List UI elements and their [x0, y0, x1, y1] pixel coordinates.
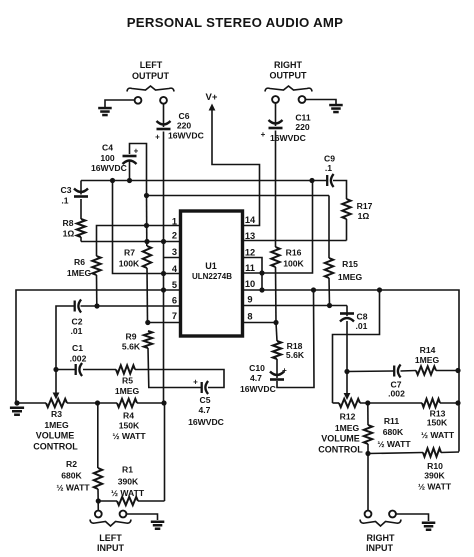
label C10	[240, 363, 276, 394]
svg-text:C6: C6	[179, 111, 190, 121]
junction dots pin 10 rail	[259, 287, 382, 292]
pin numbers 1-7	[172, 217, 178, 322]
junction dot R12-R11	[365, 400, 370, 405]
wire pin 6	[81, 305, 181, 307]
svg-text:12: 12	[245, 248, 255, 258]
right input jack sleeve terminal	[389, 511, 396, 518]
svg-text:+: +	[282, 366, 287, 375]
wire rail two	[147, 195, 330, 197]
svg-text:½ WATT: ½ WATT	[112, 431, 146, 441]
wire C2 left to C1	[56, 306, 74, 370]
svg-text:R11: R11	[384, 416, 400, 426]
junction dot rail two	[144, 193, 149, 198]
label C7	[388, 380, 405, 399]
svg-text:VOLUME: VOLUME	[36, 431, 75, 441]
label RIGHT INPUT	[366, 533, 395, 553]
svg-text:VOLUME: VOLUME	[321, 434, 360, 444]
wire R11 to jack	[367, 444, 369, 511]
svg-text:1MEG: 1MEG	[67, 268, 92, 278]
svg-text:.002: .002	[388, 389, 405, 399]
svg-text:R14: R14	[420, 345, 436, 355]
svg-text:10: 10	[245, 279, 255, 289]
svg-text:R17: R17	[357, 201, 373, 211]
label R18	[286, 341, 305, 360]
label R5	[115, 376, 140, 397]
svg-text:680K: 680K	[61, 471, 82, 481]
label R3	[33, 409, 78, 452]
svg-text:16WVDC: 16WVDC	[91, 163, 127, 173]
svg-text:V+: V+	[206, 92, 218, 103]
svg-text:CONTROL: CONTROL	[33, 442, 78, 452]
wire pin 1 to R6	[97, 226, 181, 257]
svg-text:+: +	[193, 378, 198, 387]
label R12	[318, 412, 363, 455]
svg-text:C11: C11	[295, 113, 311, 123]
resistor R1	[117, 497, 138, 505]
svg-text:.01: .01	[71, 326, 83, 336]
svg-text:R1: R1	[122, 465, 133, 475]
label C3	[61, 185, 72, 206]
svg-text:9: 9	[247, 295, 252, 305]
wire rail top (C3/C4 to C9)	[81, 180, 327, 182]
wire R12 left to pin 10 link	[333, 290, 380, 403]
svg-text:5.6K: 5.6K	[122, 342, 141, 352]
op-amp U1 ULN2274B package	[181, 211, 243, 336]
label R1	[111, 465, 145, 499]
svg-text:3: 3	[172, 247, 177, 257]
svg-text:½ WATT: ½ WATT	[418, 482, 452, 492]
label R14	[415, 345, 440, 365]
wire R12 to R13	[360, 402, 422, 404]
wire C6 column	[163, 104, 165, 127]
ground right input	[422, 522, 436, 525]
svg-text:+: +	[261, 130, 266, 139]
svg-text:R12: R12	[340, 412, 356, 422]
svg-text:LEFT: LEFT	[140, 60, 163, 70]
svg-text:C4: C4	[102, 143, 113, 153]
svg-text:100: 100	[100, 153, 115, 163]
wire pin 10 rail	[243, 290, 460, 452]
resistor R3	[46, 399, 67, 407]
wire R7 to pin 7	[146, 268, 149, 323]
svg-text:R3: R3	[51, 409, 62, 419]
svg-text:4.7: 4.7	[250, 373, 262, 383]
svg-text:.1: .1	[61, 196, 68, 206]
svg-text:CONTROL: CONTROL	[318, 445, 363, 455]
svg-text:LEFT: LEFT	[99, 533, 122, 543]
resistor R16	[271, 247, 279, 267]
junction dot pin 11	[259, 270, 264, 275]
wire C9 to R17	[333, 181, 347, 200]
wire pin 4	[113, 181, 181, 274]
wire pin 9 corner down	[346, 306, 348, 317]
wire C7 row	[347, 370, 394, 373]
wire C10 to pin 10 rail	[277, 290, 314, 388]
svg-text:R5: R5	[122, 376, 133, 386]
wire pin 2	[81, 241, 181, 243]
wire pin 13	[243, 240, 347, 242]
label C6	[168, 111, 204, 141]
svg-text:PERSONAL STEREO AUDIO AMP: PERSONAL STEREO AUDIO AMP	[127, 15, 344, 30]
svg-text:C1: C1	[72, 343, 83, 353]
wire right input sleeve to ground	[396, 514, 429, 521]
right input cable bracket	[360, 520, 401, 527]
right output jack tip terminal	[272, 96, 279, 103]
label C5	[188, 395, 224, 427]
svg-text:4.7: 4.7	[199, 405, 211, 415]
svg-text:16WVDC: 16WVDC	[240, 384, 276, 394]
svg-text:R9: R9	[126, 332, 137, 342]
junction dots rail top	[110, 178, 315, 183]
svg-text:C8: C8	[357, 312, 368, 322]
label C9	[324, 154, 335, 174]
resistor R13	[422, 399, 440, 407]
label LEFT OUTPUT	[132, 60, 170, 81]
wire R9 to C5	[148, 348, 150, 388]
junction dot pin 6	[94, 303, 99, 308]
label C1	[70, 343, 87, 364]
svg-text:16WVDC: 16WVDC	[188, 417, 224, 427]
capacitor C2	[74, 301, 76, 312]
capacitor C10	[270, 372, 284, 376]
left output cable bracket	[127, 86, 174, 92]
V+ arrow	[209, 104, 216, 111]
wire R4 row	[98, 402, 118, 404]
svg-text:1MEG: 1MEG	[338, 272, 363, 282]
pin numbers 8-14	[245, 215, 256, 322]
resistor R11	[364, 425, 372, 444]
svg-text:.1: .1	[325, 163, 332, 173]
wire rail two to R15	[328, 196, 330, 259]
svg-text:C5: C5	[200, 395, 211, 405]
right output jack sleeve terminal	[299, 96, 306, 103]
svg-text:6: 6	[172, 296, 177, 306]
arrow R12 wiper	[344, 393, 351, 400]
wire C1 node to R3 wiper	[55, 370, 57, 394]
svg-text:½ WATT: ½ WATT	[111, 488, 145, 498]
junction dot C1 node	[53, 367, 58, 372]
wire R18 to C10	[276, 359, 278, 378]
wire left input sleeve to ground	[126, 514, 157, 520]
resistor R10	[423, 448, 441, 456]
svg-text:2: 2	[172, 231, 177, 241]
label LEFT INPUT	[97, 533, 125, 553]
wire V+ to pin 14	[212, 109, 260, 226]
svg-text:RIGHT: RIGHT	[274, 60, 303, 70]
junction dot R1 left	[96, 498, 101, 503]
resistor R15	[325, 258, 333, 278]
left input jack sleeve terminal	[120, 511, 127, 518]
svg-text:OUTPUT: OUTPUT	[132, 71, 170, 81]
svg-text:5: 5	[172, 280, 177, 290]
svg-text:150K: 150K	[427, 418, 448, 428]
junction dot pin 8	[273, 320, 278, 325]
resistor R12	[339, 399, 360, 407]
wire pin 12	[243, 258, 263, 291]
junction dot pin 4	[161, 271, 166, 276]
label U1	[192, 261, 232, 281]
svg-text:390K: 390K	[424, 471, 445, 481]
svg-text:R16: R16	[286, 248, 302, 258]
svg-text:R8: R8	[63, 218, 74, 228]
svg-text:C10: C10	[249, 363, 265, 373]
wire pin 5 rail	[16, 290, 181, 403]
label C8	[356, 312, 368, 332]
label R7	[119, 248, 140, 269]
wire R8 to pin 2	[80, 237, 82, 242]
wire R11 top	[367, 403, 369, 425]
svg-text:16WVDC: 16WVDC	[168, 131, 204, 141]
svg-text:.002: .002	[70, 354, 87, 364]
svg-text:390K: 390K	[118, 477, 139, 487]
wire R16 to pin 8	[275, 267, 278, 323]
ground left output	[98, 107, 112, 110]
resistor R7	[143, 246, 151, 268]
label C11	[270, 113, 311, 144]
resistor R5	[116, 365, 135, 373]
wire R18 top	[276, 323, 277, 342]
svg-text:1MEG: 1MEG	[415, 355, 440, 365]
svg-text:C3: C3	[61, 185, 72, 195]
wire R14 right	[436, 370, 458, 372]
resistor R9	[144, 331, 152, 348]
svg-text:680K: 680K	[383, 427, 404, 437]
left input jack tip terminal	[95, 511, 102, 518]
svg-text:4: 4	[172, 264, 178, 274]
wire R13 right	[440, 402, 458, 404]
label R4	[112, 411, 146, 442]
wire R1 row	[98, 500, 117, 502]
resistor R8	[77, 219, 85, 237]
ground R3	[10, 407, 24, 410]
ground left input	[151, 521, 165, 524]
junction dot R3-R4	[95, 400, 100, 405]
wire C1 left lead	[56, 369, 75, 371]
svg-text:ULN2274B: ULN2274B	[192, 272, 232, 281]
svg-text:OUTPUT: OUTPUT	[270, 71, 308, 81]
wire right output to ground	[305, 100, 336, 105]
wire C4 bottom	[129, 160, 131, 181]
capacitor C9	[326, 175, 328, 186]
wire C3 top	[80, 181, 82, 195]
junction dot pin 9	[327, 303, 332, 308]
left output jack tip terminal	[135, 97, 142, 104]
wire pin 7	[148, 322, 181, 324]
resistor R14	[416, 366, 436, 374]
label C2	[71, 317, 83, 337]
svg-text:U1: U1	[205, 261, 217, 271]
wire R5 to C5 loop	[135, 370, 224, 388]
wire C5 left	[150, 387, 202, 389]
capacitor C4	[123, 155, 137, 158]
svg-text:C9: C9	[324, 154, 335, 164]
label R8	[63, 218, 75, 239]
wire pin 8	[243, 322, 277, 324]
svg-text:R15: R15	[342, 259, 358, 269]
wire R3 row	[16, 402, 46, 404]
label RIGHT OUTPUT	[270, 60, 308, 81]
svg-text:1Ω: 1Ω	[358, 211, 370, 221]
svg-text:R10: R10	[427, 461, 443, 471]
capacitor C5	[201, 382, 203, 393]
capacitor C11	[269, 120, 283, 124]
svg-text:13: 13	[245, 231, 255, 241]
label R9	[122, 332, 141, 352]
svg-text:220: 220	[177, 121, 192, 131]
label R17	[357, 201, 373, 221]
label R16	[283, 248, 304, 269]
svg-text:1MEG: 1MEG	[335, 423, 360, 433]
label R6	[67, 257, 92, 278]
junction dot pin 5	[161, 287, 166, 292]
label R11	[377, 416, 411, 449]
svg-text:R7: R7	[124, 248, 135, 258]
label R2	[56, 459, 90, 493]
svg-text:100K: 100K	[119, 259, 140, 269]
svg-text:½ WATT: ½ WATT	[421, 430, 455, 440]
wire R17 to pin 13	[346, 219, 348, 241]
svg-text:1Ω: 1Ω	[63, 229, 75, 239]
resistor R2	[94, 468, 102, 489]
svg-text:100K: 100K	[283, 259, 304, 269]
svg-text:1MEG: 1MEG	[44, 420, 69, 430]
resistor R4	[117, 399, 137, 407]
wire C4 loop	[130, 144, 147, 197]
svg-text:INPUT: INPUT	[97, 543, 125, 553]
svg-text:150K: 150K	[119, 421, 140, 431]
wire R12 row left	[333, 402, 340, 404]
svg-text:½ WATT: ½ WATT	[56, 483, 90, 493]
svg-text:8: 8	[247, 312, 252, 322]
svg-text:14: 14	[245, 215, 256, 225]
capacitor C3	[74, 189, 88, 193]
svg-text:1: 1	[172, 217, 177, 227]
junction dot R10 left	[365, 451, 370, 456]
label R13	[421, 409, 455, 441]
capacitor C1	[75, 364, 77, 375]
capacitor C7	[393, 366, 395, 377]
wire R2 to jack	[97, 489, 99, 511]
svg-text:+: +	[155, 133, 160, 142]
wire pin 3	[164, 257, 181, 259]
junction dot R14 right	[455, 368, 460, 373]
svg-text:R4: R4	[123, 411, 134, 421]
wire R3 node down to R2	[97, 403, 99, 468]
svg-text:+: +	[134, 147, 139, 156]
svg-text:220: 220	[295, 122, 310, 132]
junction dot R13 right	[455, 400, 460, 405]
wire C8 down to R12 wiper	[346, 321, 348, 394]
svg-text:1MEG: 1MEG	[115, 386, 140, 396]
capacitor C8	[340, 312, 354, 315]
svg-text:5.6K: 5.6K	[286, 350, 305, 360]
wire pin 11	[243, 181, 313, 274]
junction dot ground left	[14, 400, 19, 405]
wire R10 row	[368, 453, 423, 454]
svg-text:R6: R6	[74, 257, 85, 267]
svg-text:INPUT: INPUT	[366, 543, 394, 553]
wire C3 to R8	[80, 199, 82, 219]
svg-text:½ WATT: ½ WATT	[377, 439, 411, 449]
junction dot C7 node	[344, 369, 349, 374]
junction dots pins 1-2	[144, 223, 166, 244]
svg-text:C2: C2	[72, 317, 83, 327]
svg-text:.01: .01	[356, 321, 368, 331]
wire R15 to pin 9	[328, 278, 331, 306]
capacitor C6	[157, 121, 171, 125]
junction dot pin 7	[145, 320, 150, 325]
wire pin 9	[243, 305, 348, 307]
label R15	[338, 259, 363, 282]
svg-text:7: 7	[172, 311, 177, 321]
wire C1 to R5	[83, 369, 116, 371]
right input jack tip terminal	[365, 511, 372, 518]
resistor R18	[273, 341, 281, 359]
svg-text:11: 11	[245, 263, 255, 273]
label R10	[418, 461, 452, 492]
wire left output to ground	[105, 100, 135, 107]
junction dot R4 right	[161, 400, 166, 405]
resistor R17	[342, 199, 350, 219]
left output jack sleeve terminal	[160, 97, 167, 104]
svg-text:R2: R2	[66, 459, 77, 469]
wire C11 to R16	[275, 103, 277, 126]
ground right output	[329, 104, 343, 107]
label C4	[91, 143, 127, 174]
wire R6 to pin 6	[96, 275, 98, 306]
svg-text:RIGHT: RIGHT	[367, 533, 396, 543]
resistor R6	[92, 256, 100, 275]
right output cable bracket	[265, 86, 312, 92]
left input cable bracket	[90, 520, 131, 527]
arrow R3 wiper	[53, 393, 60, 400]
wire pins 1-2 node column	[146, 196, 148, 247]
